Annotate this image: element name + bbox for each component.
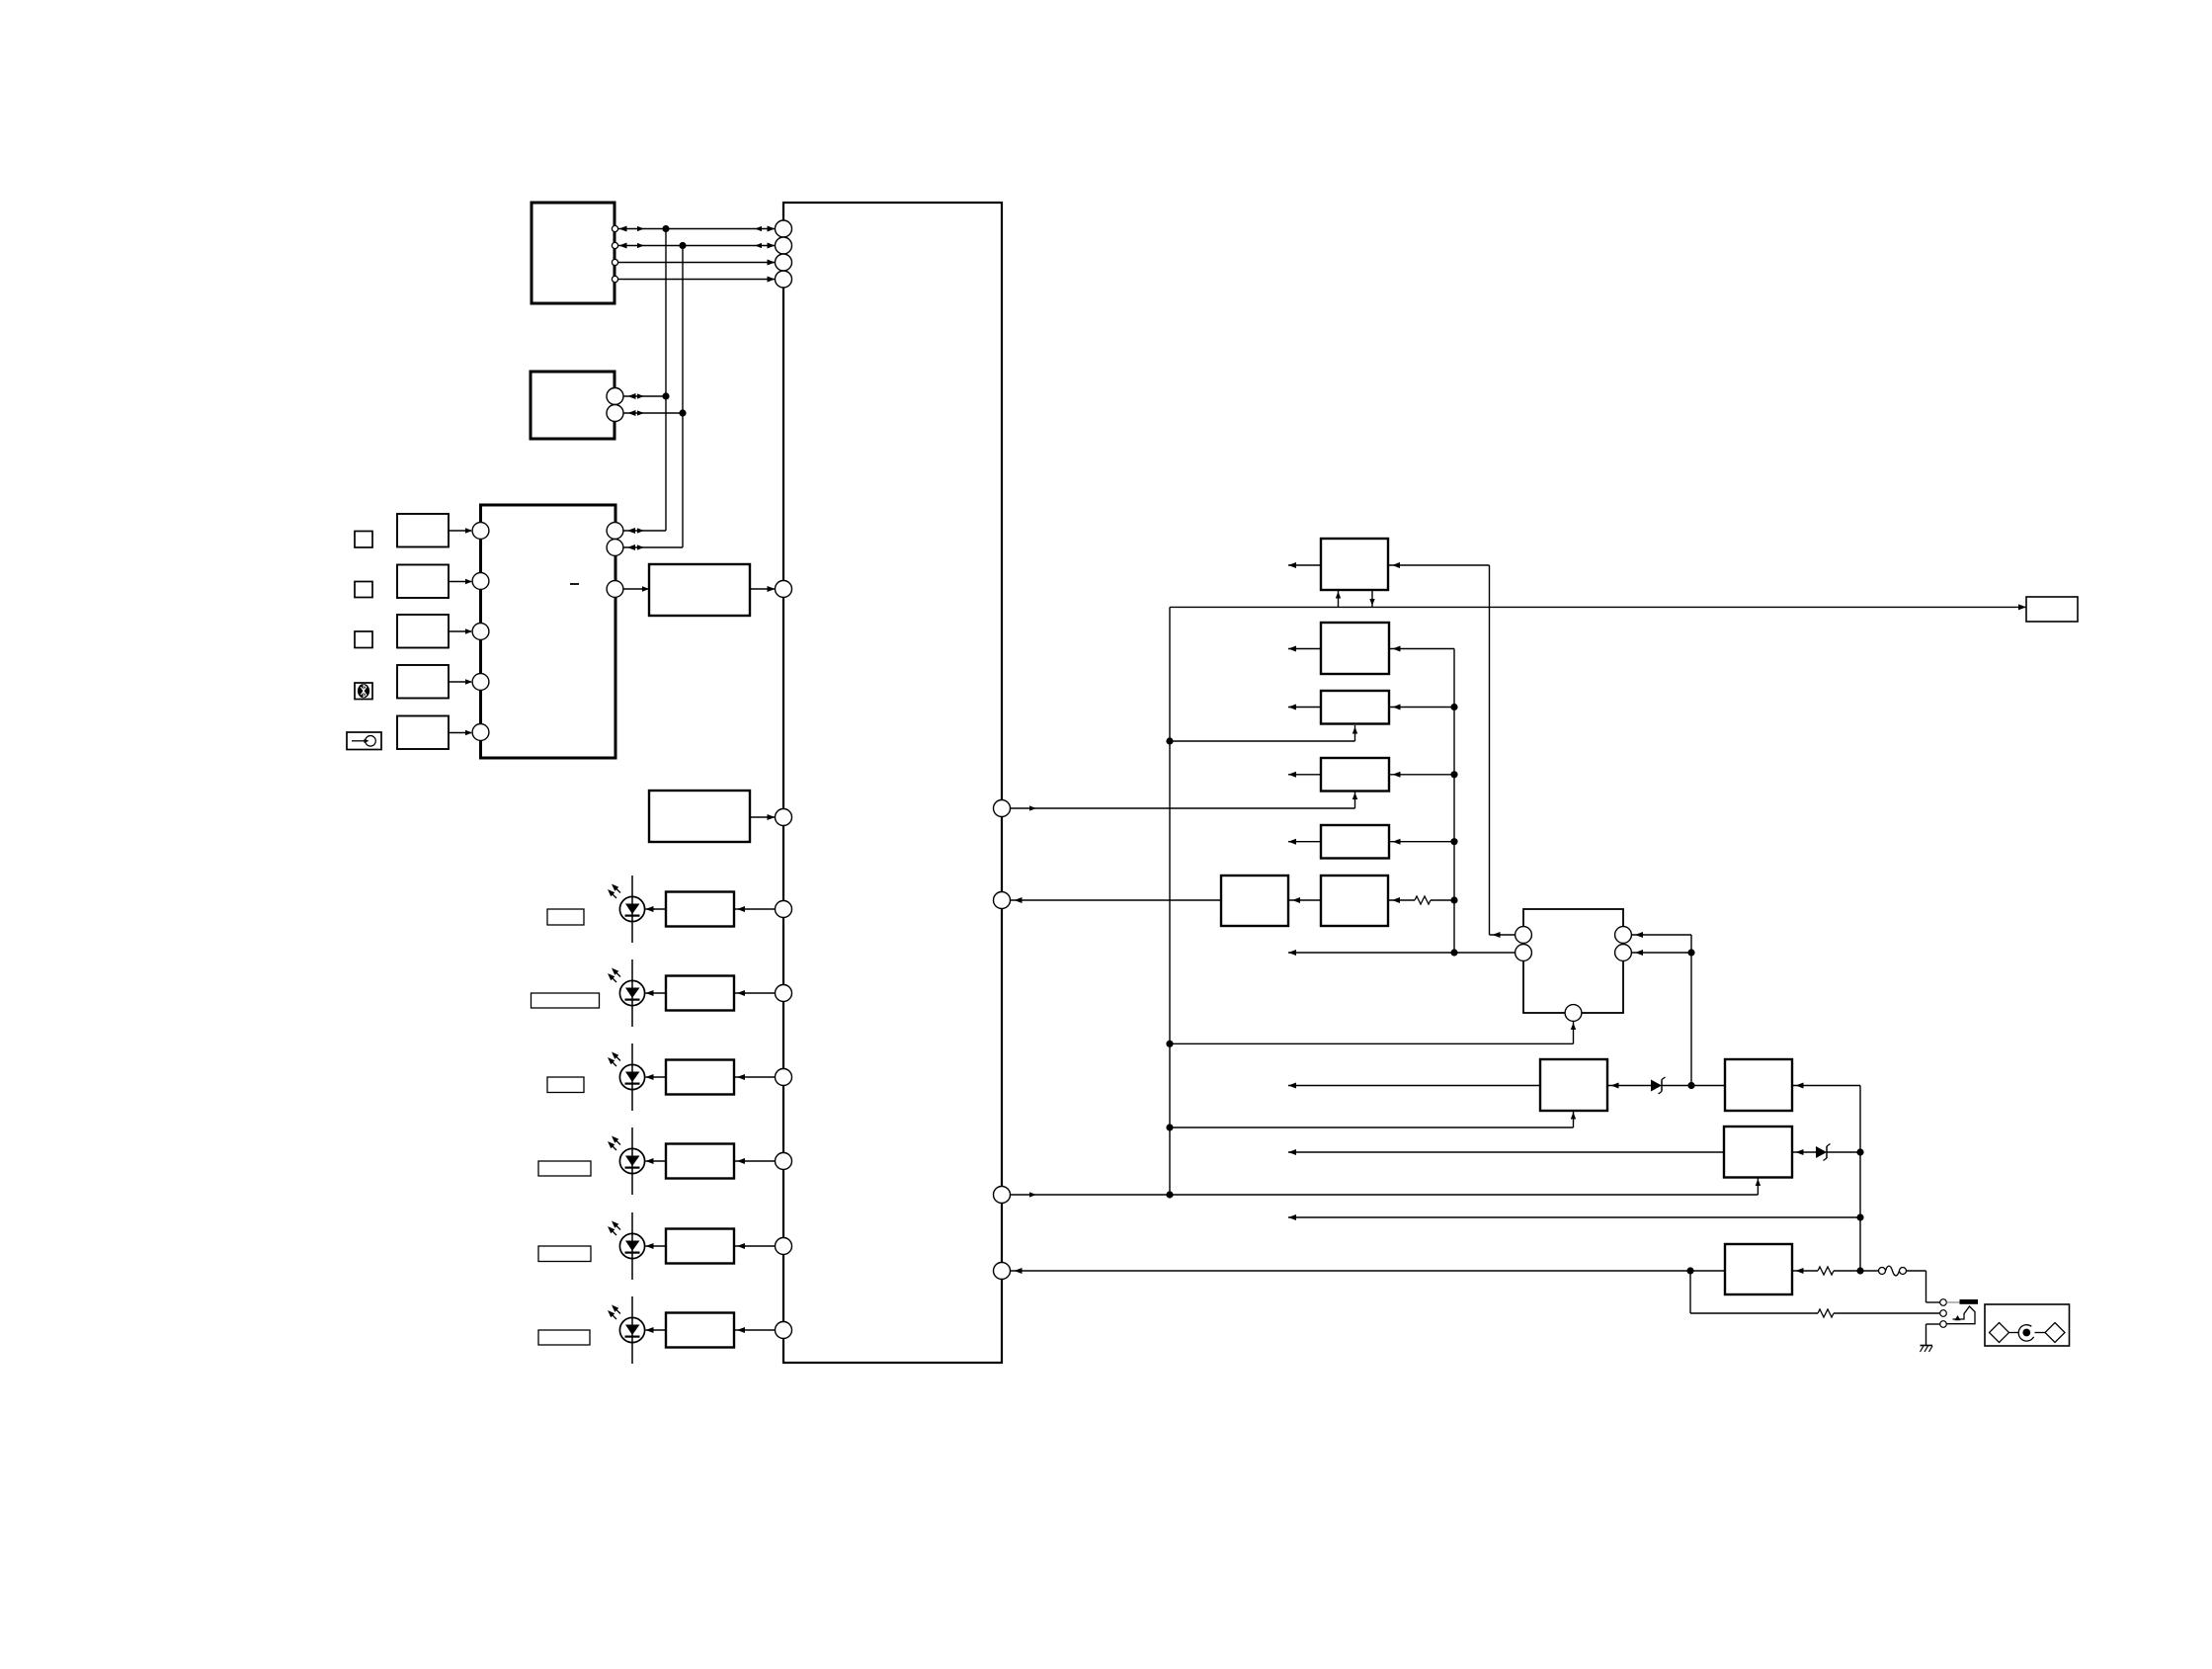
wire: vertical bus drop B xyxy=(682,246,684,548)
pin: TL1 pin 2 xyxy=(612,242,617,248)
wire: MCU pin A to box D stub xyxy=(1011,805,1355,810)
junction: V3 node D2 xyxy=(1856,1148,1863,1155)
resistor box R4 xyxy=(666,1144,734,1179)
pin: TL2 pin 1 xyxy=(607,388,623,405)
wire: stub box A down xyxy=(1369,590,1374,607)
pin: DC jack contact 2 xyxy=(1940,1310,1947,1317)
wire: TL1 to MCU output line xyxy=(618,277,776,283)
icon: LED 3 light rays xyxy=(608,1052,620,1067)
label: minus dash inside key block xyxy=(570,583,579,585)
LED D5 xyxy=(619,1212,644,1280)
wire: R6 to LED xyxy=(646,1327,667,1333)
wire: key switch 1 to key block xyxy=(449,528,472,533)
wire: MCU to R4 xyxy=(734,1158,776,1164)
pin: MCU right pin D xyxy=(994,1263,1011,1280)
label: LED row 5 name box xyxy=(538,1246,591,1262)
block: key switch box 3 xyxy=(397,615,449,648)
wire: M2 to MCU xyxy=(750,814,776,820)
icon: square key cap 3 xyxy=(355,631,372,648)
wire: V2 to K pin3 xyxy=(1631,932,1691,938)
diode D2 xyxy=(1792,1144,1860,1161)
DC jack plug symbol xyxy=(1946,1306,1975,1324)
block: power box I xyxy=(1725,1059,1792,1111)
pin: MCU left pin 1 xyxy=(776,220,792,237)
wire: V1 to K bottom pin xyxy=(1170,1022,1576,1044)
battery bar xyxy=(1960,1299,1979,1304)
wire: B1 to box B xyxy=(1389,646,1454,652)
icon: polarity diamond 2 xyxy=(2045,1323,2065,1343)
junction: TL2 bus B node xyxy=(679,409,686,416)
block: comm box E xyxy=(1321,825,1389,859)
pin: MCU left pin 3 xyxy=(776,254,792,271)
wire: TL2 pin2 to bus B xyxy=(623,410,683,416)
junction: V2 node at 964 xyxy=(1687,949,1694,956)
pin: TL1 pin 3 xyxy=(612,259,617,265)
block: comm box D xyxy=(1321,758,1389,792)
LED D2 xyxy=(619,960,644,1027)
icon: LED 6 light rays xyxy=(608,1305,620,1320)
wire: F input with resistor xyxy=(1388,896,1454,904)
icon: LED 4 light rays xyxy=(608,1136,620,1151)
icon: LED 1 light rays xyxy=(608,884,620,899)
junction: node power-jack branch xyxy=(1686,1267,1693,1274)
icon: bluetooth key cap xyxy=(355,683,372,700)
resistor box R1 xyxy=(666,892,734,927)
pin: TL1 pin 4 xyxy=(612,276,617,282)
label: LED row 1 name box xyxy=(547,909,584,925)
LED D3 xyxy=(619,1043,644,1111)
wire: fuse to jack contact 1 xyxy=(1926,1271,1940,1302)
block: comm box B xyxy=(1321,623,1389,674)
wire: V3 to box I xyxy=(1792,1083,1860,1089)
wire: vertical bus drop A xyxy=(665,229,667,532)
block: driver box G xyxy=(1221,876,1288,926)
LED D6 xyxy=(619,1296,644,1364)
pin: key block left pin 3 xyxy=(472,624,489,640)
pin: K bottom pin 5 xyxy=(1565,1005,1582,1022)
resistor box R6 xyxy=(666,1313,734,1348)
resistor box R5 xyxy=(666,1229,734,1264)
pin: key block left pin 1 xyxy=(472,523,489,540)
block: key matrix block xyxy=(481,505,616,758)
block: key switch box 1 xyxy=(397,514,449,547)
wire: box B left stub xyxy=(1288,646,1321,652)
wire: TL2 pin1 to bus A xyxy=(623,393,666,399)
wire: key switch 4 to key block xyxy=(449,679,472,684)
wire: vertical V4 xyxy=(1489,565,1491,935)
wire: long data line to remote box xyxy=(1170,604,2026,610)
pin: key block right pin 3 xyxy=(607,581,623,598)
wire: V4 to K pin1 xyxy=(1490,932,1516,938)
LED D4 xyxy=(619,1127,644,1195)
block: top-left module box TL2 xyxy=(531,372,614,439)
wire: MCU to R1 xyxy=(734,906,776,912)
wire: box C left stub xyxy=(1288,705,1321,710)
wire: box A left stub xyxy=(1288,562,1321,568)
wire: vertical V3 xyxy=(1859,1086,1861,1272)
pin: DC jack contact 3 xyxy=(1940,1321,1947,1328)
wire: F to G xyxy=(1288,897,1321,903)
pin: MCU LED pin 1 xyxy=(776,901,792,918)
wire: MCU pin C line xyxy=(1011,1192,1759,1197)
junction: V1 node 3 xyxy=(1166,1124,1173,1130)
junction: V1 node 2 xyxy=(1166,1041,1173,1047)
wire: key pin3 to M1 xyxy=(623,586,649,591)
pin: K right pin 3 xyxy=(1615,927,1632,944)
wire: contact1 to battery bar xyxy=(1947,1301,1960,1303)
pin: MCU LED pin 5 xyxy=(776,1238,792,1255)
pin: MCU LED pin 3 xyxy=(776,1069,792,1086)
wire: key switch 3 to key block xyxy=(449,628,472,633)
pin: MCU right pin A xyxy=(994,800,1011,817)
block: comm box A xyxy=(1321,539,1388,590)
wire: R2 to LED xyxy=(646,990,667,996)
wire: V2 to K pin4 xyxy=(1631,950,1691,956)
wire: lower sense line xyxy=(1690,1271,1940,1317)
block: key switch box 2 xyxy=(397,565,449,599)
resistor box R2 xyxy=(666,976,734,1011)
wire: bidirectional bus line 1 TL1-MCU xyxy=(618,226,776,232)
block: power box J xyxy=(1724,1127,1792,1178)
pin: MCU right pin C xyxy=(994,1187,1011,1204)
wire: power line to MCU pin D xyxy=(1011,1268,1726,1274)
LED D1 xyxy=(619,876,644,943)
pin: MCU LED pin 6 xyxy=(776,1322,792,1339)
wire: R3 to LED xyxy=(646,1074,667,1080)
pin: key block left pin 4 xyxy=(472,674,489,691)
block: main system micon IC xyxy=(783,203,1002,1363)
pin: TL2 pin 2 xyxy=(607,405,623,422)
wire: box E left stub xyxy=(1288,839,1321,845)
wire: R5 to LED xyxy=(646,1243,667,1249)
wire: stub up into box J xyxy=(1756,1178,1761,1196)
wire: left stub line into K pin2 xyxy=(1288,950,1516,956)
wire: contact3 to ground xyxy=(1926,1324,1940,1346)
block: top-left module box TL1 xyxy=(532,203,614,303)
pin: key block right pin 2 xyxy=(607,540,623,556)
icon: LED 2 light rays xyxy=(608,968,620,983)
wire: box J left stub xyxy=(1288,1149,1724,1155)
pin: K left pin 1 xyxy=(1516,927,1532,944)
label: LED row 6 name box xyxy=(538,1330,590,1345)
wire: M1 to MCU xyxy=(750,586,776,592)
junction: B1 node C xyxy=(1450,704,1457,710)
junction: node V1-C xyxy=(1166,1191,1173,1198)
pin: MCU LED pin 2 xyxy=(776,985,792,1002)
wire: B1 to box D xyxy=(1389,772,1454,778)
wire: V1 to box H stub xyxy=(1170,1111,1576,1127)
junction: V3 node 1232 xyxy=(1856,1213,1863,1220)
wire: MCU to R2 xyxy=(734,990,776,996)
wire: key pin1 to bus A xyxy=(623,528,666,534)
diode D1 xyxy=(1607,1077,1725,1094)
resistor box R3 xyxy=(666,1060,734,1095)
junction: node on bus line 2 xyxy=(679,242,686,249)
junction: bus B1 node at F xyxy=(1450,896,1457,903)
wire: bidirectional bus line 2 TL1-MCU xyxy=(618,243,776,249)
wire: MCU to R6 xyxy=(734,1327,776,1333)
ground xyxy=(1921,1346,1933,1353)
icon: square key cap 1 xyxy=(355,532,372,548)
label: LED row 2 name box xyxy=(532,993,600,1008)
wire: stub up into box D xyxy=(1352,792,1357,808)
block: audio amp block K xyxy=(1523,909,1623,1013)
block: remote sensor box xyxy=(2026,597,2078,622)
label: LED row 4 name box xyxy=(538,1161,591,1176)
icon: polarity center plug xyxy=(2018,1325,2033,1341)
block: interface box M1 xyxy=(649,564,750,616)
pin: MCU left pin 4 xyxy=(776,271,792,288)
icon: aux input key cap xyxy=(347,732,381,750)
junction: TL2 bus A node xyxy=(662,392,669,399)
junction: B1 node D xyxy=(1450,771,1457,778)
junction: node on bus line 1 xyxy=(662,225,669,232)
pin: K right pin 4 xyxy=(1615,945,1632,961)
label: LED row 3 name box xyxy=(547,1077,584,1093)
wire: long stub line y1232 xyxy=(1288,1214,1860,1220)
wire: MCU to R5 xyxy=(734,1243,776,1249)
wire: box H left output xyxy=(1288,1083,1540,1089)
pin: TL1 pin 1 xyxy=(612,225,617,231)
wire: MCU to R3 xyxy=(734,1074,776,1080)
pin: MCU right pin B xyxy=(994,892,1011,909)
wire: vertical bus B1 xyxy=(1453,649,1455,954)
pin: K left pin 2 xyxy=(1516,945,1532,961)
pin: MCU LED pin 4 xyxy=(776,1153,792,1170)
pin: MCU pin M2 xyxy=(776,809,792,826)
wire: V1 to box C stub xyxy=(1170,725,1357,741)
wire: box A right to V4 xyxy=(1388,562,1490,568)
wire: R1 to LED xyxy=(646,906,667,912)
wire: key switch 2 to key block xyxy=(449,579,472,584)
pin: DC jack contact 1 xyxy=(1940,1299,1947,1306)
block: key switch box 4 xyxy=(397,665,449,699)
block: DC-IN polarity box xyxy=(1985,1304,2070,1346)
wire: polarity link 1 xyxy=(2009,1332,2019,1334)
icon: polarity diamond 1 xyxy=(1990,1323,2009,1343)
junction: B1 node E xyxy=(1450,838,1457,845)
block: power box H xyxy=(1540,1059,1607,1111)
wire: L input with resistor xyxy=(1792,1267,1879,1275)
pin: key block right pin 1 xyxy=(607,523,623,540)
wire: vertical V2 xyxy=(1690,935,1692,1086)
block: sensor box M2 xyxy=(649,791,750,842)
junction: B1 bottom node xyxy=(1450,949,1457,956)
wire: B1 to box C xyxy=(1389,705,1454,710)
wire: B1 to box E xyxy=(1389,839,1454,845)
wire: TL1 to MCU output line xyxy=(618,260,776,266)
block: comm box C xyxy=(1321,691,1389,724)
block: key switch box 5 xyxy=(397,716,449,750)
wire: polarity link 2 xyxy=(2035,1332,2046,1334)
wire: stub box A up xyxy=(1336,590,1341,607)
pin: key block left pin 2 xyxy=(472,573,489,590)
wire: box D left stub xyxy=(1288,772,1321,778)
icon: LED 5 light rays xyxy=(608,1221,620,1236)
wire: G to MCU pin B xyxy=(1011,897,1222,903)
wire: key pin2 to bus B xyxy=(623,544,683,550)
junction: V1 node 1 xyxy=(1166,737,1173,744)
pin: MCU pin M1 xyxy=(776,581,792,598)
block: regulator box L xyxy=(1725,1244,1792,1294)
pin: key block left pin 5 xyxy=(472,724,489,741)
wire: R4 to LED xyxy=(646,1158,667,1164)
wire: key switch 5 to key block xyxy=(449,730,472,735)
junction: V2 bottom node xyxy=(1687,1082,1694,1089)
pin: MCU left pin 2 xyxy=(776,237,792,254)
wire: vertical bus V1 xyxy=(1169,607,1171,1195)
fuse F1 xyxy=(1879,1266,1926,1276)
block: driver box F xyxy=(1321,876,1388,926)
junction: V3 bottom node xyxy=(1856,1267,1863,1274)
icon: square key cap 2 xyxy=(355,582,372,598)
